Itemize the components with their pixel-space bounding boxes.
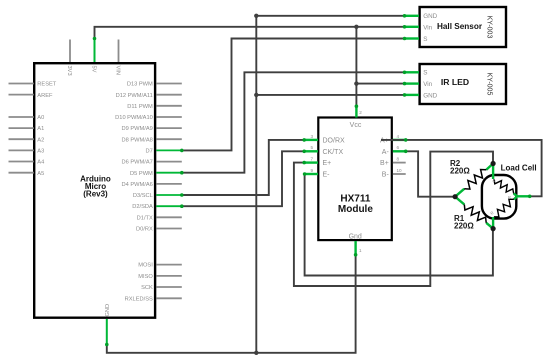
- resistor R1 value label: [454, 214, 474, 231]
- wire arduino GND to HX711 Gnd: [107, 255, 356, 353]
- svg-text:R: R: [508, 195, 511, 200]
- svg-text:SCK: SCK: [141, 285, 153, 291]
- svg-text:GND: GND: [423, 13, 437, 20]
- svg-text:D5 PWM: D5 PWM: [130, 171, 153, 177]
- wire 5V drop to IR Vin junction and HX711 Vcc: [355, 27, 357, 106]
- load cell strain gauge 2 lead from right pin: [514, 196, 517, 199]
- svg-text:A2: A2: [37, 137, 44, 143]
- wire GND rail to hall GND: [256, 15, 404, 17]
- green connection dots: [93, 14, 532, 346]
- HX711 left legs: [304, 140, 318, 174]
- svg-text:D1/TX: D1/TX: [137, 215, 153, 221]
- svg-text:B-: B-: [382, 172, 390, 179]
- svg-text:7: 7: [310, 157, 313, 162]
- svg-text:3V3: 3V3: [66, 66, 72, 76]
- wire D3/SCL to HX711 DO/RX: [182, 140, 304, 195]
- HX711 Vcc leg: [355, 106, 357, 117]
- svg-text:B+: B+: [380, 160, 389, 167]
- arduino right pin legs: [156, 84, 182, 299]
- svg-text:2: 2: [359, 110, 362, 115]
- wire HX711 E- to load cell bottom node: [305, 174, 493, 276]
- svg-text:Vcc: Vcc: [350, 122, 362, 129]
- hall sensor pin labels: [423, 13, 437, 43]
- arduino top pin legs 3V3 / 5V / VIN: [69, 40, 71, 63]
- svg-text:D8 PWM/A8: D8 PWM/A8: [122, 137, 153, 143]
- svg-text:1: 1: [359, 248, 362, 253]
- HX711 pin labels: [323, 122, 390, 240]
- svg-text:RXLED/SS: RXLED/SS: [125, 296, 153, 302]
- wire D7 to hall S: [182, 39, 405, 151]
- wire D2/SDA to HX711 CK/TX: [182, 151, 304, 206]
- svg-text:220Ω: 220Ω: [454, 221, 474, 230]
- svg-text:DO/RX: DO/RX: [323, 138, 346, 145]
- svg-text:D7: D7: [146, 149, 153, 155]
- arduino U1 title: [80, 174, 111, 198]
- svg-text:CK/TX: CK/TX: [323, 149, 344, 156]
- IR LED KY-005 body: [420, 64, 506, 104]
- IR LED pin legs: [405, 72, 420, 95]
- HX711 Gnd leg: [354, 241, 356, 255]
- resistor R1 leads: [455, 197, 493, 229]
- svg-text:Load Cell: Load Cell: [501, 164, 537, 173]
- svg-text:E-: E-: [323, 172, 331, 179]
- hall sensor pin legs: [405, 16, 420, 39]
- load cell strain gauge 2: [494, 199, 514, 217]
- svg-text:MOSI: MOSI: [138, 263, 153, 269]
- junction GND rail / IR GND wire: [254, 93, 258, 97]
- svg-text:3: 3: [310, 134, 313, 139]
- svg-text:D4 PWM/A6: D4 PWM/A6: [122, 182, 153, 188]
- svg-text:9: 9: [310, 168, 313, 173]
- wire IR LED Vin branch: [356, 83, 404, 85]
- svg-text:KY-005: KY-005: [486, 73, 493, 96]
- load cell strain gauge 1 lead from top node: [492, 164, 494, 179]
- svg-text:S: S: [423, 36, 427, 43]
- HX711 pin numbers: [310, 110, 402, 253]
- load cell strain gauge 1 lead to right pin: [514, 194, 518, 197]
- svg-text:A0: A0: [37, 115, 44, 121]
- resistor R2: [464, 170, 486, 190]
- HX711 title: [338, 194, 373, 216]
- wire IR LED GND branch: [256, 94, 404, 96]
- wire 5V rail: arduino 5V to hall Vin: [95, 27, 405, 39]
- svg-text:D0/RX: D0/RX: [136, 227, 153, 233]
- svg-text:E+: E+: [323, 160, 332, 167]
- svg-text:GND: GND: [105, 304, 111, 317]
- wire D5 to IR S: [182, 72, 405, 172]
- svg-text:5: 5: [310, 145, 313, 150]
- svg-text:Hall Sensor: Hall Sensor: [437, 22, 483, 31]
- node bridge left: [453, 194, 458, 199]
- arduino right pin labels: [115, 82, 153, 303]
- node bridge bottom: [491, 226, 496, 231]
- svg-text:A5: A5: [37, 171, 44, 177]
- svg-text:D6 PWM/A7: D6 PWM/A7: [122, 160, 153, 166]
- svg-text:10: 10: [397, 168, 403, 173]
- svg-text:8: 8: [397, 157, 400, 162]
- svg-text:RESET: RESET: [37, 82, 56, 88]
- HX711 module body: [318, 118, 392, 241]
- svg-text:KY-003: KY-003: [486, 16, 493, 39]
- svg-text:6: 6: [397, 145, 400, 150]
- junction 5V rail / vcc drop: [354, 25, 358, 29]
- HX711 unconnected legs B+ B-: [393, 163, 406, 174]
- svg-text:Vin: Vin: [423, 81, 432, 88]
- svg-text:GND: GND: [423, 93, 437, 100]
- arduino top pin labels: [66, 66, 121, 76]
- svg-text:MISO: MISO: [138, 274, 153, 280]
- svg-text:HX711: HX711: [340, 194, 370, 205]
- wire GND rail vertical: [255, 16, 257, 353]
- wire HX711 E+ to load cell top node: [294, 152, 493, 286]
- svg-text:D12 PWM/A11: D12 PWM/A11: [116, 93, 153, 99]
- svg-text:IR LED: IR LED: [441, 77, 469, 87]
- arduino left pin legs: [9, 84, 34, 173]
- svg-text:D13 PWM: D13 PWM: [127, 82, 153, 88]
- IR LED pin labels: [423, 70, 437, 100]
- arduino left pin labels: [37, 82, 56, 177]
- node bridge top: [491, 161, 496, 166]
- resistor R2 value label: [450, 159, 470, 176]
- load cell body: [482, 175, 516, 219]
- junction GND rail / hall GND wire: [254, 14, 258, 18]
- svg-text:A4: A4: [37, 160, 44, 166]
- svg-text:A+: A+: [380, 138, 389, 145]
- svg-text:S: S: [423, 70, 427, 77]
- arduino bottom pin leg GND: [106, 319, 108, 345]
- svg-text:D2/SDA: D2/SDA: [132, 204, 153, 210]
- junction GND rail / bottom GND wire: [254, 351, 258, 355]
- svg-text:D9 PWM/A9: D9 PWM/A9: [122, 126, 153, 132]
- resistor R1: [464, 204, 486, 222]
- svg-text:D11 PWM: D11 PWM: [127, 104, 153, 110]
- hall sensor KY-003 body: [420, 7, 506, 47]
- svg-text:D3/SCL: D3/SCL: [133, 193, 153, 199]
- wire HX711 A+ to load cell right pin: [381, 140, 542, 196]
- resistor R2 leads: [455, 164, 493, 197]
- svg-text:4: 4: [397, 134, 400, 139]
- svg-text:5V: 5V: [90, 66, 96, 73]
- svg-text:D10 PWM/A10: D10 PWM/A10: [115, 115, 153, 121]
- svg-text:Gnd: Gnd: [349, 234, 362, 241]
- junction vcc drop / IR Vin branch: [354, 81, 358, 85]
- svg-text:A1: A1: [37, 126, 44, 132]
- wire HX711 A- to bridge left node: [406, 151, 455, 196]
- HX711 A- leg: [393, 150, 406, 152]
- HX711 A+ leg: [393, 139, 406, 141]
- svg-text:A-: A-: [382, 149, 390, 156]
- load cell right pin leg: [517, 195, 529, 197]
- load cell strain gauge 1: [494, 179, 514, 194]
- svg-text:Vin: Vin: [423, 25, 432, 32]
- svg-text:Module: Module: [338, 204, 373, 215]
- load cell strain gauge 2 lead to bottom node: [492, 217, 494, 229]
- svg-text:AREF: AREF: [37, 93, 53, 99]
- arduino U1 body: [34, 63, 155, 318]
- svg-text:VIN: VIN: [114, 66, 120, 75]
- svg-text:220Ω: 220Ω: [450, 167, 470, 176]
- load cell tiny gauge labels: [489, 178, 511, 216]
- svg-text:A3: A3: [37, 149, 44, 155]
- svg-text:(Rev3): (Rev3): [83, 190, 108, 199]
